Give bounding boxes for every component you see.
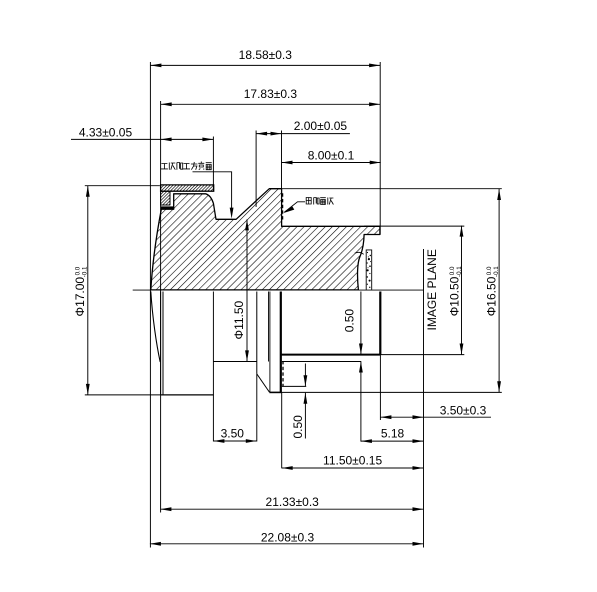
svg-text:Φ10.500.0-0.1: Φ10.500.0-0.1 (448, 266, 464, 317)
svg-text:0.50: 0.50 (291, 415, 305, 439)
rear tube face edge, mirrored (bold) (379, 292, 381, 355)
svg-text:IMAGE PLANE: IMAGE PLANE (425, 249, 439, 330)
SECTION: part geometry bottom half (151, 291, 380, 395)
SECTION: part geometry top half (133, 185, 424, 290)
ext line phi17 top (85, 185, 160, 187)
label: secondary machining bright face (7 hanzi) (161, 162, 212, 170)
ext line 2.00 left x256.1 (255, 131, 257, 207)
arrows 4.33 (161, 138, 172, 142)
arrows 21.33 (160, 507, 171, 511)
svg-text:22.08±0.3: 22.08±0.3 (261, 530, 315, 544)
svg-text:21.33±0.3: 21.33±0.3 (266, 495, 320, 509)
svg-text:Φ17.000.0-0.1: Φ17.000.0-0.1 (73, 266, 89, 317)
arrows 11.50 (282, 466, 293, 470)
ext line phi10.5 bottom (380, 354, 464, 356)
ext line flange rear x281.7 lower (281, 392, 283, 468)
arrows 0.50 mid (359, 344, 363, 355)
arrows phi10.5 (460, 226, 464, 237)
retaining cap strip (secondary-machined bright face), dense hatch (161, 185, 214, 191)
SECTION: texts (73, 48, 500, 544)
svg-text:3.50±0.3: 3.50±0.3 (440, 403, 487, 417)
dim line 8.00 (282, 162, 381, 164)
dim line phi17 (87, 186, 89, 395)
ext line rear face x380.2 upper (379, 62, 381, 235)
bore cone chamfer diagonal (257, 374, 270, 392)
ext line bore step x256.8 lower (256, 374, 258, 442)
arrows phi16.5 (497, 189, 501, 200)
svg-text:8.00±0.1: 8.00±0.1 (308, 148, 355, 162)
ext line phi17 bottom (85, 394, 161, 396)
svg-text:4.33±0.05: 4.33±0.05 (79, 126, 133, 140)
cap strip face / phi17 flange edge, mirrored (161, 394, 214, 396)
laser engraving zone boundary (hidden/dashed), upper (282, 193, 284, 220)
adhesive stipple strip outline (366, 250, 372, 290)
arrows phi17 (86, 186, 90, 197)
svg-text:5.18: 5.18 (381, 427, 405, 441)
arrow bright-face leader (230, 208, 234, 219)
SECTION: CJK labels drawn as glyph boxes (161, 162, 334, 205)
SECTION: arrowheads (86, 64, 501, 546)
dim line 22.08 (150, 543, 424, 545)
barrel body section (hatched), upper half (151, 189, 380, 290)
svg-text:Φ16.500.0-0.1: Φ16.500.0-0.1 (485, 266, 501, 317)
arrows 5.18 (361, 439, 372, 443)
dim line 3.50 groove (213, 440, 256, 442)
arrows phi11.5 (245, 219, 249, 230)
lens rear surface top edge (355, 252, 364, 254)
svg-text:18.58±0.3: 18.58±0.3 (239, 48, 293, 62)
dim line 4.33 (71, 138, 213, 140)
ext line flange rear x281.5 upper (281, 131, 283, 189)
bore step face (256, 292, 258, 374)
phi11.5 bore silhouette line, front (213, 361, 256, 363)
ext line cap face x160.6 (160, 101, 162, 513)
arrows 22.08 (150, 542, 161, 546)
svg-text:3.50: 3.50 (221, 427, 245, 441)
cap outer wall edge, mirrored (160, 292, 162, 395)
arrow laser-zone leader (283, 206, 294, 213)
leader line laser-zone label (284, 202, 305, 212)
image plane line x423.5 (423, 249, 425, 548)
ext line strip right x213.4 upper (212, 137, 214, 192)
dim line 3.50±0.3 (380, 416, 491, 418)
laser engraving zone boundary (dashed), mirrored (282, 361, 284, 386)
body step under cap silhouette (282, 385, 306, 387)
lens edge silhouette line, rear (282, 361, 361, 363)
dim line 21.33 (160, 508, 423, 510)
retaining cap side wall, dense hatch (161, 191, 170, 205)
dim line phi11.5 (246, 219, 248, 361)
arrows 2.00 (256, 132, 267, 136)
dim line 5.18 (361, 440, 424, 442)
arrows 3.50 groove (213, 439, 224, 443)
svg-text:2.00±0.05: 2.00±0.05 (294, 119, 348, 133)
arrows 0.50 bottom (304, 375, 308, 386)
label: laser engraving zone (4 hanzi) (306, 198, 333, 205)
flange rear face edge, mirrored (bold) (280, 292, 282, 393)
arrows 18.58 (150, 64, 161, 68)
arrows 17.83 (161, 102, 172, 106)
arrows 3.50±0.3 (380, 415, 391, 419)
SECTION: dimensions (71, 62, 502, 548)
dim line phi16.5 (498, 189, 500, 392)
arrows 8.00 (282, 161, 293, 165)
retaining cap bottom lip (dark bar) (161, 206, 174, 208)
ext line phi16.5 top (flange top plane) (269, 188, 502, 190)
svg-text:17.83±0.3: 17.83±0.3 (244, 87, 298, 101)
dim line 18.58 (150, 64, 380, 66)
cap inner lip edge, mirrored (162, 292, 164, 395)
phi10.5 rear tube silhouette (bold) (281, 354, 380, 356)
adhesive stipple dots (367, 252, 372, 288)
svg-text:0.50: 0.50 (343, 309, 357, 333)
dim line 2.00 (256, 133, 350, 135)
ext line phi10.5 top (364, 225, 464, 227)
svg-text:Φ11.50: Φ11.50 (232, 300, 246, 339)
dim line 0.50 mid upper leg (360, 292, 362, 355)
dim line 17.83 (161, 103, 380, 105)
svg-text:11.50±0.15: 11.50±0.15 (323, 453, 382, 467)
dim line 11.50 (282, 467, 424, 469)
ext line bore left x213.4 lower (212, 292, 214, 442)
dim line 0.50 bottom legs (304, 364, 306, 387)
leader line bright-face label (193, 172, 232, 209)
ext line 0.50 / 5.18 x360.9 lower (360, 362, 362, 442)
flange front chamfer edge, mirrored (269, 292, 271, 393)
phi16.5 flange bottom edge (269, 391, 281, 393)
ext line rear face x380.4 lower (379, 355, 381, 420)
centerline / section floor (133, 289, 424, 291)
front nose curve, mirrored (151, 291, 160, 362)
ext line phi16.5 bottom (282, 391, 502, 393)
flange front face edge, mirrored (268, 292, 270, 362)
dim line phi10.5 (461, 226, 463, 355)
ext line front tip x150.4 (149, 62, 151, 548)
